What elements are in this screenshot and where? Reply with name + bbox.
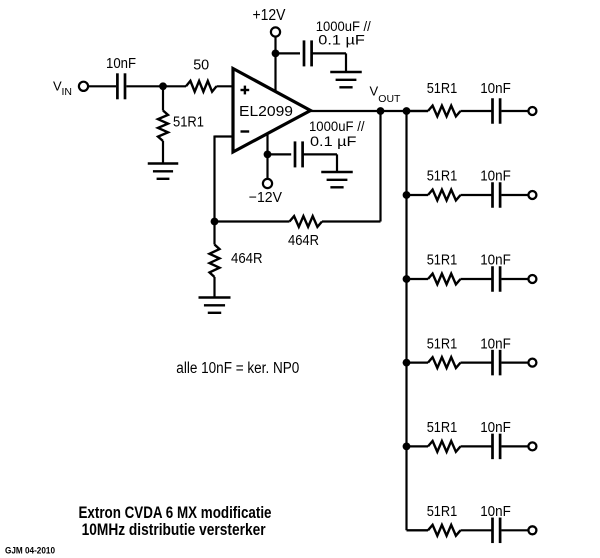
- svg-text:Extron CVDA 6 MX modificatie: Extron CVDA 6 MX modificatie: [79, 504, 272, 522]
- svg-text:51R1: 51R1: [427, 419, 458, 436]
- svg-text:10nF: 10nF: [480, 252, 511, 269]
- svg-text:464R: 464R: [231, 250, 263, 267]
- svg-text:51R1: 51R1: [427, 503, 458, 520]
- svg-text:EL2099: EL2099: [239, 103, 293, 120]
- svg-text:0.1 µF: 0.1 µF: [310, 133, 357, 149]
- svg-text:IN: IN: [62, 86, 73, 98]
- svg-text:0.1 µF: 0.1 µF: [318, 32, 365, 48]
- svg-text:+12V: +12V: [253, 7, 287, 24]
- svg-text:51R1: 51R1: [427, 168, 458, 185]
- svg-text:51R1: 51R1: [427, 252, 458, 269]
- svg-text:10nF: 10nF: [106, 55, 136, 72]
- svg-text:10MHz distributie versterker: 10MHz distributie versterker: [82, 521, 266, 539]
- svg-text:−12V: −12V: [249, 190, 283, 206]
- svg-text:10nF: 10nF: [480, 419, 511, 436]
- svg-text:51R1: 51R1: [427, 335, 458, 352]
- svg-text:50: 50: [193, 58, 209, 74]
- svg-text:10nF: 10nF: [480, 80, 511, 97]
- svg-text:1000uF //: 1000uF //: [309, 118, 365, 134]
- svg-text:OUT: OUT: [378, 93, 401, 105]
- svg-text:10nF: 10nF: [480, 168, 511, 185]
- svg-text:51R1: 51R1: [427, 80, 458, 97]
- svg-text:10nF: 10nF: [480, 335, 511, 352]
- svg-text:alle 10nF = ker. NP0: alle 10nF = ker. NP0: [176, 360, 299, 377]
- svg-text:GJM 04-2010: GJM 04-2010: [5, 546, 55, 556]
- svg-text:10nF: 10nF: [480, 503, 511, 520]
- svg-text:51R1: 51R1: [173, 114, 204, 131]
- svg-text:464R: 464R: [288, 232, 319, 249]
- svg-text:V: V: [370, 84, 379, 99]
